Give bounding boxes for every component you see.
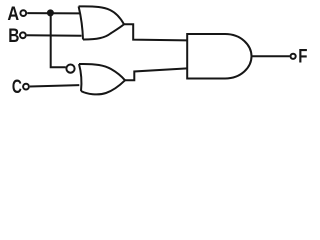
- svg-text:F: F: [298, 46, 307, 67]
- terminal F: [291, 54, 296, 59]
- svg-text:A: A: [7, 4, 19, 25]
- junction node on A wire: [47, 9, 54, 16]
- wire from junction down to NOT bubble: [51, 13, 66, 67]
- OR gate U2 (inverted top input): [79, 64, 125, 94]
- wire AND output to F: [252, 55, 290, 57]
- OR gate U1: [79, 6, 124, 39]
- wire U1 output to AND gate: [124, 24, 187, 40]
- wire U2 output to AND gate: [125, 68, 187, 80]
- terminal B: [20, 32, 26, 38]
- wire C to OR gate U2: [30, 85, 80, 86]
- wire B to OR gate U1: [27, 34, 82, 37]
- svg-text:B: B: [8, 26, 19, 47]
- svg-text:C: C: [12, 77, 22, 98]
- AND gate U3: [187, 34, 251, 79]
- NOT bubble on U2 top input: [66, 65, 74, 73]
- terminal A: [20, 10, 26, 16]
- wire A to OR gate U1: [27, 12, 80, 14]
- terminal C: [23, 84, 29, 90]
